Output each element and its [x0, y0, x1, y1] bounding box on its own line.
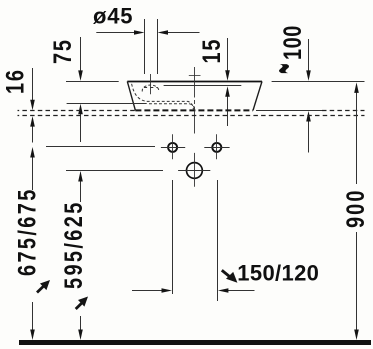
countertop top surface dashed line right part: [322, 110, 365, 112]
dimension ~100 upper shaft with down arrow: [308, 39, 310, 72]
dimension 675 lower shaft with down arrow: [32, 302, 34, 331]
dimension line ø45 left arrow: [96, 32, 136, 34]
drain hole crosshair vertical: [194, 153, 196, 187]
extension line 595 level: [66, 170, 163, 172]
faucet hole crosshair vertical: [150, 74, 152, 94]
center line solid lower: [194, 110, 196, 133]
dimension 16 lower shaft with up arrow: [32, 126, 34, 143]
thick diagonal arrow at 150/120 (pointing down-left... SE tip): [222, 270, 238, 283]
faucet hole edge line right: [157, 19, 159, 74]
floor bar: [19, 340, 371, 345]
extension line 150/120 left vertical: [172, 180, 174, 294]
small hole left crosshair horizontal: [161, 147, 185, 149]
dimension 595 lower shaft with down arrow: [80, 316, 82, 331]
bowl interior hidden contour (dashed): [132, 84, 194, 110]
drain hole big circle: [187, 163, 203, 179]
basin rim top edge: [127, 81, 262, 83]
dimension 75 lower shaft with up arrow: [80, 114, 82, 143]
faucet hole dashed arc: [142, 85, 159, 91]
small hole right crosshair horizontal: [204, 147, 229, 149]
extension line basin bottom right (for ~100): [256, 110, 322, 112]
countertop top surface dashed line left part: [18, 110, 136, 112]
thick diagonal arrow under 675 label: [37, 280, 50, 293]
svg-text:100: 100: [279, 25, 306, 60]
svg-text:150/120: 150/120: [237, 260, 319, 285]
small hole left crosshair vertical: [172, 134, 174, 159]
basin bottom hidden edge (thick dashed): [135, 109, 253, 111]
center line dashed through basin: [194, 94, 196, 111]
countertop bottom surface dashed line: [18, 115, 365, 117]
bowl bottom hidden line 2 (dashed): [149, 104, 194, 110]
dimension 15 upper shaft with down arrow: [227, 38, 229, 72]
dimension 900 upper shaft with up arrow: [356, 91, 358, 184]
basin inner ledge line: [164, 85, 242, 87]
center line solid upper: [194, 67, 196, 94]
svg-text:900: 900: [342, 188, 369, 228]
basin right slant side: [253, 81, 262, 110]
dimension 150/120 right arrow pointing left: [226, 290, 255, 292]
extension line bowl bottom left: [67, 103, 147, 105]
dimension 15 lower shaft with up arrow: [227, 97, 229, 127]
faucet hole edge line left: [144, 19, 146, 74]
extension line 675 level: [46, 146, 155, 148]
drain hole crosshair horizontal: [178, 170, 210, 172]
svg-text:595/625: 595/625: [60, 200, 87, 289]
svg-text:675/675: 675/675: [14, 187, 41, 276]
svg-text:75: 75: [49, 38, 76, 64]
svg-text:16: 16: [2, 68, 29, 94]
extension line 150/120 right vertical: [217, 180, 219, 301]
small hole right crosshair vertical: [216, 134, 218, 159]
basin left slant side: [127, 81, 135, 110]
dimension 595 upper shaft with up arrow: [80, 173, 82, 203]
small hole circle left: [168, 143, 177, 152]
thick diagonal arrow under 595 label: [76, 297, 88, 310]
dimension 900 lower shaft with down arrow: [356, 232, 358, 331]
dimension ~100 lower shaft with up arrow: [308, 121, 310, 153]
svg-text:ø45: ø45: [93, 4, 133, 29]
extension line rim level left: [66, 81, 119, 83]
dimension 675 upper shaft with up arrow: [32, 156, 34, 190]
dimension 150/120 left arrow pointing right: [132, 290, 164, 292]
dimension line ø45 right arrow: [166, 32, 200, 34]
dimension 75 upper shaft with down arrow: [80, 37, 82, 72]
small hole circle right: [212, 143, 221, 152]
svg-text:15: 15: [198, 38, 225, 64]
center tick horizontal: [189, 75, 201, 77]
extension line rim level right: [272, 81, 365, 83]
dimension 16 upper shaft with down arrow: [32, 68, 34, 102]
faucet hole crosshair horizontal (dashed): [144, 87, 158, 89]
